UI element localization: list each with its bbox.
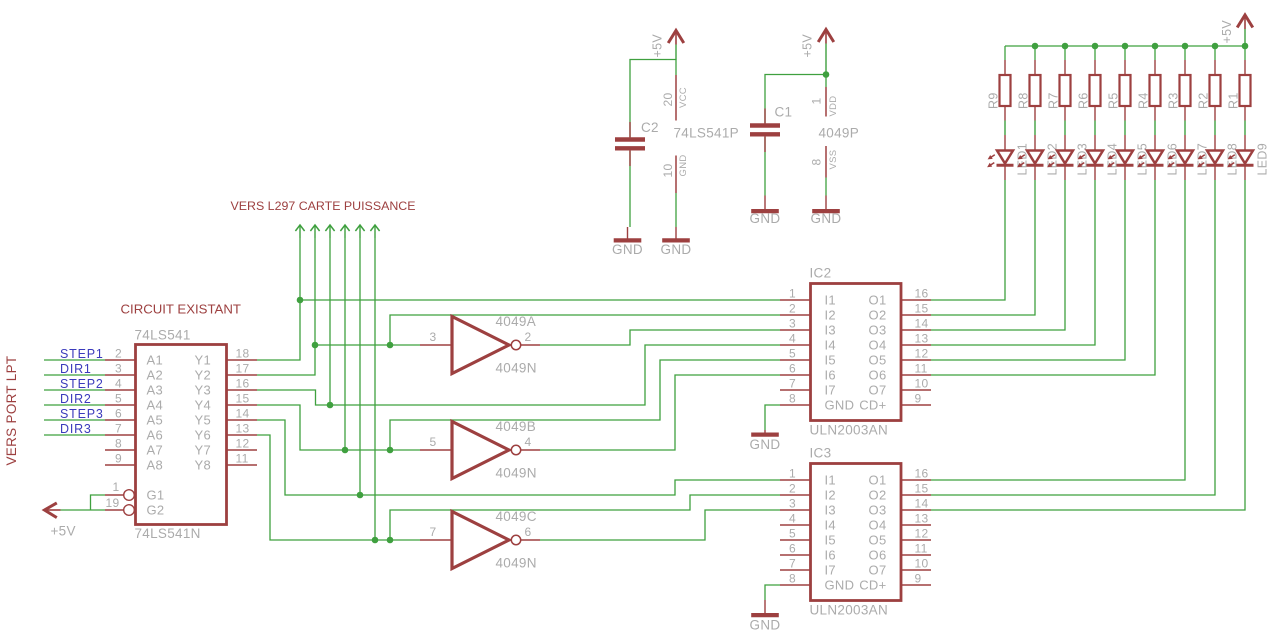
LED LED9 emission arrows bbox=[1229, 155, 1235, 159]
svg-text:CD+: CD+ bbox=[859, 578, 886, 593]
wire IC2 O1 to LED1 bbox=[931, 180, 1005, 300]
resistor R6 body bbox=[1090, 75, 1101, 106]
inverter 4049C input stub bbox=[420, 539, 451, 541]
junction at 315,345 bbox=[312, 342, 319, 349]
wire Y4 jog to IC2 I5 bbox=[390, 360, 780, 450]
svg-text:1: 1 bbox=[810, 98, 824, 105]
resistor R8 bottom pin bbox=[1034, 106, 1036, 121]
svg-text:I6: I6 bbox=[825, 548, 836, 563]
junction at 330,405 bbox=[327, 402, 334, 409]
svg-text:Y7: Y7 bbox=[194, 443, 211, 458]
wire resistor to LED4 bbox=[1094, 121, 1096, 136]
wire rail drop x1005 bbox=[1004, 46, 1006, 60]
74LS541 pin 19 bubble bbox=[124, 505, 135, 516]
svg-text:R7: R7 bbox=[1047, 92, 1061, 109]
svg-text:GND: GND bbox=[750, 211, 781, 226]
IC2 pin 1 stub bbox=[780, 299, 810, 301]
resistor R8 body bbox=[1030, 75, 1041, 106]
resistor R2 body bbox=[1210, 75, 1221, 106]
junction at 1035,46 bbox=[1032, 43, 1039, 50]
wire riser 6 bbox=[374, 238, 376, 540]
svg-text:R3: R3 bbox=[1167, 92, 1181, 109]
svg-text:Y1: Y1 bbox=[194, 353, 211, 368]
IC3 pin 1 stub bbox=[780, 479, 810, 481]
svg-text:+5V: +5V bbox=[1220, 20, 1234, 44]
IC2 pin 6 stub bbox=[780, 374, 810, 376]
svg-text:9: 9 bbox=[915, 392, 922, 406]
svg-text:9: 9 bbox=[915, 572, 922, 586]
wire resistor to LED8 bbox=[1214, 121, 1216, 136]
LED LED3 cathode pin bbox=[1064, 165, 1066, 180]
svg-text:O1: O1 bbox=[869, 473, 887, 488]
ground C2 bbox=[627, 227, 629, 239]
svg-text:10: 10 bbox=[915, 557, 929, 571]
resistor R3 top pin bbox=[1184, 60, 1186, 75]
wire Y6 jog to IC3 I2 bbox=[390, 495, 780, 540]
74LS541 pin 11 stub bbox=[227, 464, 257, 466]
svg-text:7: 7 bbox=[430, 525, 437, 539]
wire Y1 to IC2 I1 bbox=[300, 299, 780, 301]
IC2 pin 11 stub bbox=[901, 374, 931, 376]
resistor R5 body bbox=[1120, 75, 1131, 106]
svg-text:6: 6 bbox=[525, 525, 532, 539]
arrow to L297 wire 2 bbox=[310, 225, 319, 231]
svg-text:13: 13 bbox=[915, 332, 929, 346]
74LS541 pin 9 stub bbox=[105, 464, 135, 466]
74LS541 pin 16 stub bbox=[227, 389, 257, 391]
74LS541 pin 8 stub bbox=[105, 449, 135, 451]
74LS541P VCC pin 20 bbox=[675, 75, 677, 121]
resistor R5 top pin bbox=[1124, 60, 1126, 75]
LED LED9 cathode bar bbox=[1237, 164, 1254, 167]
svg-text:12: 12 bbox=[236, 437, 250, 451]
IC3 pin 16 stub bbox=[901, 479, 931, 481]
junction at 1095,46 bbox=[1092, 43, 1099, 50]
wire rail drop x1095 bbox=[1094, 46, 1096, 60]
junction at 1065,46 bbox=[1062, 43, 1069, 50]
LED LED5 body bbox=[1117, 151, 1133, 164]
LED LED8 anode pin bbox=[1214, 135, 1216, 151]
svg-text:+5V: +5V bbox=[51, 524, 76, 539]
capacitor C2 bottom pin bbox=[629, 151, 631, 167]
svg-text:ULN2003AN: ULN2003AN bbox=[810, 603, 889, 618]
IC3 pin 8 stub bbox=[780, 584, 810, 586]
resistor R4 bottom pin bbox=[1154, 106, 1156, 121]
svg-text:A8: A8 bbox=[147, 458, 164, 473]
svg-text:13: 13 bbox=[915, 512, 929, 526]
LED LED7 cathode bar bbox=[1177, 164, 1194, 167]
IC2 pin 7 stub bbox=[780, 389, 810, 391]
svg-text:C1: C1 bbox=[775, 105, 793, 120]
wire STEP3 net bbox=[44, 419, 105, 421]
inverter 4049A body bbox=[452, 317, 509, 374]
svg-text:+5V: +5V bbox=[801, 34, 815, 58]
inverter 4049B output stub bbox=[521, 449, 540, 451]
74LS541 pin 14 stub bbox=[227, 419, 257, 421]
svg-text:8: 8 bbox=[789, 572, 796, 586]
74LS541 pin 17 stub bbox=[227, 374, 257, 376]
LED LED4 cathode pin bbox=[1094, 165, 1096, 180]
wire rail drop x1065 bbox=[1064, 46, 1066, 60]
ground IC3 bbox=[764, 600, 766, 614]
74LS541 pin 5 stub bbox=[105, 404, 135, 406]
svg-text:14: 14 bbox=[236, 407, 250, 421]
LED LED4 body bbox=[1087, 151, 1103, 164]
wire 4049P VSS to GND bbox=[825, 178, 827, 196]
LED LED5 emission arrows bbox=[1109, 155, 1115, 159]
wire resistor to LED6 bbox=[1154, 121, 1156, 136]
wire rail drop x1125 bbox=[1124, 46, 1126, 60]
svg-text:16: 16 bbox=[915, 287, 929, 301]
IC3 pin 10 stub bbox=[901, 569, 931, 571]
svg-text:A1: A1 bbox=[147, 353, 164, 368]
junction at 360,495 bbox=[357, 492, 364, 499]
resistor R1 body bbox=[1240, 75, 1251, 106]
svg-text:5: 5 bbox=[430, 435, 437, 449]
svg-text:11: 11 bbox=[915, 542, 928, 556]
arrow to L297 wire 1 bbox=[295, 225, 304, 231]
LED LED5 cathode pin bbox=[1124, 165, 1126, 180]
4049P VSS pin 8 bbox=[825, 146, 827, 178]
junction at 1155,46 bbox=[1152, 43, 1159, 50]
svg-text:GND: GND bbox=[825, 398, 855, 413]
arrow to L297 wire 3 bbox=[325, 225, 334, 231]
arrow to L297 wire 6 bbox=[370, 225, 379, 231]
wire resistor to LED3 bbox=[1064, 121, 1066, 136]
svg-text:A7: A7 bbox=[147, 443, 164, 458]
svg-text:4: 4 bbox=[115, 377, 122, 391]
capacitor C1 bottom pin bbox=[764, 137, 766, 153]
svg-text:I6: I6 bbox=[825, 368, 836, 383]
svg-text:2: 2 bbox=[115, 347, 122, 361]
capacitor C2 plates bbox=[615, 137, 645, 141]
svg-text:3: 3 bbox=[789, 317, 796, 331]
IC3 pin 15 stub bbox=[901, 494, 931, 496]
LED LED2 anode pin bbox=[1034, 135, 1036, 151]
74LS541 pin 1 stub bbox=[105, 494, 124, 496]
svg-text:I5: I5 bbox=[825, 533, 836, 548]
wire C2 to VCC rail bbox=[630, 60, 676, 138]
wire Y6 to 4049C input bbox=[257, 435, 420, 540]
wire IC3 O3 to LED9 bbox=[931, 180, 1245, 510]
IC3 pin 14 stub bbox=[901, 509, 931, 511]
svg-text:16: 16 bbox=[236, 377, 250, 391]
wire C1 to VDD rail bbox=[765, 75, 826, 124]
svg-text:GND: GND bbox=[825, 578, 855, 593]
+5V supply arrow left bbox=[45, 503, 57, 518]
IC IC3 body bbox=[811, 464, 902, 601]
IC2 pin 8 stub bbox=[780, 404, 810, 406]
svg-text:17: 17 bbox=[236, 362, 250, 376]
svg-text:1: 1 bbox=[113, 480, 120, 494]
svg-text:VDD: VDD bbox=[828, 96, 839, 117]
svg-text:ULN2003AN: ULN2003AN bbox=[810, 423, 889, 438]
svg-text:4049A: 4049A bbox=[496, 314, 537, 329]
svg-text:12: 12 bbox=[915, 527, 929, 541]
svg-text:I3: I3 bbox=[825, 503, 836, 518]
wire DIR3 net bbox=[44, 434, 105, 436]
resistor R6 bottom pin bbox=[1094, 106, 1096, 121]
IC3 pin 9 stub bbox=[901, 584, 931, 586]
inverter 4049C output stub bbox=[521, 539, 540, 541]
wire riser 3 bbox=[329, 238, 331, 405]
arrow to L297 wire 5 bbox=[355, 225, 364, 231]
74LS541P GND pin 10 bbox=[675, 156, 677, 194]
svg-text:1: 1 bbox=[789, 287, 796, 301]
LED LED9 cathode pin bbox=[1244, 165, 1246, 180]
IC2 pin 5 stub bbox=[780, 359, 810, 361]
wire C1 to GND bbox=[764, 137, 766, 196]
wire IC3 pin8 to GND bbox=[765, 585, 780, 600]
svg-text:A3: A3 bbox=[147, 383, 164, 398]
wire resistor to LED2 bbox=[1034, 121, 1036, 136]
svg-text:GND: GND bbox=[750, 437, 781, 452]
svg-text:R2: R2 bbox=[1197, 92, 1211, 109]
IC3 pin 12 stub bbox=[901, 539, 931, 541]
svg-text:4: 4 bbox=[789, 512, 796, 526]
svg-text:6: 6 bbox=[789, 542, 796, 556]
ground 74LS541P bbox=[675, 227, 677, 239]
resistor R5 bottom pin bbox=[1124, 106, 1126, 121]
wire Y3 to riser bbox=[257, 345, 780, 405]
resistor R4 body bbox=[1150, 75, 1161, 106]
svg-text:I1: I1 bbox=[825, 293, 836, 308]
svg-text:R6: R6 bbox=[1077, 92, 1091, 109]
wire resistor to LED5 bbox=[1124, 121, 1126, 136]
svg-text:4049N: 4049N bbox=[496, 556, 537, 571]
wire Y5 to riser 5 bbox=[257, 420, 780, 495]
wire riser 5 bbox=[359, 238, 361, 495]
wire Y2 branch to 4049A input bbox=[315, 344, 420, 346]
wire 541P GND pin to GND bbox=[675, 193, 677, 227]
svg-text:Y6: Y6 bbox=[194, 428, 211, 443]
LED LED7 cathode pin bbox=[1184, 165, 1186, 180]
svg-text:Y2: Y2 bbox=[194, 368, 211, 383]
svg-text:15: 15 bbox=[915, 482, 929, 496]
IC2 pin 3 stub bbox=[780, 329, 810, 331]
svg-text:O4: O4 bbox=[869, 338, 887, 353]
svg-text:O7: O7 bbox=[869, 563, 887, 578]
svg-text:I1: I1 bbox=[825, 473, 836, 488]
svg-text:4049B: 4049B bbox=[496, 419, 537, 434]
svg-text:8: 8 bbox=[810, 159, 824, 166]
svg-text:7: 7 bbox=[789, 557, 796, 571]
svg-text:I5: I5 bbox=[825, 353, 836, 368]
svg-text:IC2: IC2 bbox=[810, 266, 832, 281]
inverter 4049C bubble bbox=[511, 535, 520, 544]
svg-text:+5V: +5V bbox=[651, 34, 665, 58]
IC2 pin 16 stub bbox=[901, 299, 931, 301]
wire IC2 O4 to LED4 bbox=[931, 180, 1095, 345]
IC3 pin 11 stub bbox=[901, 554, 931, 556]
resistor R4 top pin bbox=[1154, 60, 1156, 75]
svg-text:10: 10 bbox=[661, 164, 675, 178]
+5V supply arrow 4049P bbox=[818, 30, 834, 43]
svg-text:VERS L297 CARTE PUISSANCE: VERS L297 CARTE PUISSANCE bbox=[231, 199, 416, 213]
ground 4049P bbox=[825, 196, 827, 210]
junction at 390,540 bbox=[387, 537, 394, 544]
IC2 pin 9 stub bbox=[901, 404, 931, 406]
wire DIR2 net bbox=[44, 404, 105, 406]
wire 4049B out to IC2 I6 bbox=[540, 375, 780, 450]
svg-text:I2: I2 bbox=[825, 488, 836, 503]
LED LED6 emission arrows bbox=[1139, 155, 1145, 159]
LED LED1 anode pin bbox=[1004, 135, 1006, 151]
capacitor C1 plates bbox=[750, 123, 780, 127]
LED LED4 cathode bar bbox=[1087, 164, 1104, 167]
IC3 pin 2 stub bbox=[780, 494, 810, 496]
resistor R3 body bbox=[1180, 75, 1191, 106]
svg-text:4049N: 4049N bbox=[496, 466, 537, 481]
LED LED1 cathode pin bbox=[1004, 165, 1006, 180]
IC 74LS541 body bbox=[136, 345, 227, 525]
svg-text:I7: I7 bbox=[825, 563, 836, 578]
svg-text:4: 4 bbox=[789, 332, 796, 346]
LED LED8 cathode bar bbox=[1207, 164, 1224, 167]
svg-text:DIR3: DIR3 bbox=[60, 422, 92, 436]
svg-text:16: 16 bbox=[915, 467, 929, 481]
wire rail drop x1155 bbox=[1154, 46, 1156, 60]
svg-text:C2: C2 bbox=[641, 120, 659, 135]
svg-text:4049P: 4049P bbox=[819, 126, 860, 141]
svg-text:A2: A2 bbox=[147, 368, 164, 383]
svg-text:R1: R1 bbox=[1227, 92, 1241, 109]
svg-text:3: 3 bbox=[430, 330, 437, 344]
svg-text:GND: GND bbox=[750, 618, 781, 633]
svg-text:O4: O4 bbox=[869, 518, 887, 533]
wire +5V to G1 G2 bbox=[61, 509, 106, 511]
LED LED9 anode pin bbox=[1244, 135, 1246, 151]
svg-text:A4: A4 bbox=[147, 398, 164, 413]
LED LED3 anode pin bbox=[1064, 135, 1066, 151]
LED LED5 anode pin bbox=[1124, 135, 1126, 151]
resistor R9 body bbox=[1000, 75, 1011, 106]
svg-text:6: 6 bbox=[789, 362, 796, 376]
svg-text:A6: A6 bbox=[147, 428, 164, 443]
inverter 4049C body bbox=[452, 512, 509, 569]
wire Y4 to 4049B input bbox=[257, 405, 420, 450]
74LS541 pin 13 stub bbox=[227, 434, 257, 436]
resistor R7 bottom pin bbox=[1064, 106, 1066, 121]
svg-text:74LS541N: 74LS541N bbox=[135, 526, 201, 541]
svg-text:9: 9 bbox=[115, 452, 122, 466]
wire resistor to LED1 bbox=[1004, 121, 1006, 136]
wire rail drop x1035 bbox=[1034, 46, 1036, 60]
LED LED1 emission arrows bbox=[989, 155, 995, 159]
+5V supply arrow LED rail bbox=[1237, 15, 1253, 28]
IC2 pin 10 stub bbox=[901, 389, 931, 391]
svg-text:GND: GND bbox=[612, 242, 643, 257]
resistor R6 top pin bbox=[1094, 60, 1096, 75]
inverter 4049B input stub bbox=[420, 449, 451, 451]
svg-text:O3: O3 bbox=[869, 323, 887, 338]
wire riser 4 bbox=[344, 238, 346, 450]
ground IC2 bbox=[764, 430, 766, 433]
svg-text:4: 4 bbox=[525, 435, 532, 449]
wire IC3 O1 to LED7 bbox=[931, 180, 1185, 480]
74LS541 pin 2 stub bbox=[105, 359, 135, 361]
svg-text:R5: R5 bbox=[1107, 92, 1121, 109]
wire +5V LED rail bbox=[1005, 45, 1245, 47]
LED LED6 anode pin bbox=[1154, 135, 1156, 151]
wire resistor to LED9 bbox=[1244, 121, 1246, 136]
svg-text:STEP3: STEP3 bbox=[60, 407, 104, 421]
inverter 4049A input stub bbox=[420, 344, 451, 346]
svg-text:R8: R8 bbox=[1017, 92, 1031, 109]
+5V supply arrow 74LS541P bbox=[668, 31, 684, 44]
svg-text:12: 12 bbox=[915, 347, 929, 361]
junction at 300,300 bbox=[297, 297, 304, 304]
wire resistor to LED7 bbox=[1184, 121, 1186, 136]
svg-text:STEP2: STEP2 bbox=[60, 377, 104, 391]
svg-text:I2: I2 bbox=[825, 308, 836, 323]
inverter 4049A bubble bbox=[511, 340, 520, 349]
wire rail drop x1185 bbox=[1184, 46, 1186, 60]
svg-text:1: 1 bbox=[789, 467, 796, 481]
capacitor C2 top pin bbox=[629, 122, 631, 138]
svg-text:14: 14 bbox=[915, 317, 929, 331]
svg-text:3: 3 bbox=[115, 362, 122, 376]
svg-text:R9: R9 bbox=[987, 92, 1001, 109]
IC2 pin 12 stub bbox=[901, 359, 931, 361]
74LS541 pin 7 stub bbox=[105, 434, 135, 436]
LED LED2 cathode bar bbox=[1027, 164, 1044, 167]
inverter 4049B body bbox=[452, 422, 509, 479]
svg-text:G1: G1 bbox=[147, 488, 165, 503]
svg-text:5: 5 bbox=[115, 392, 122, 406]
IC2 pin 13 stub bbox=[901, 344, 931, 346]
LED LED9 body bbox=[1237, 151, 1253, 164]
IC3 pin 3 stub bbox=[780, 509, 810, 511]
inverter 4049B bubble bbox=[511, 445, 520, 454]
wire IC2 O3 to LED3 bbox=[931, 180, 1065, 330]
LED LED2 cathode pin bbox=[1034, 165, 1036, 180]
LED LED2 body bbox=[1027, 151, 1043, 164]
resistor R7 body bbox=[1060, 75, 1071, 106]
LED LED8 emission arrows bbox=[1199, 155, 1205, 159]
resistor R9 top pin bbox=[1004, 60, 1006, 75]
svg-text:7: 7 bbox=[115, 422, 122, 436]
svg-text:8: 8 bbox=[115, 437, 122, 451]
IC3 pin 6 stub bbox=[780, 554, 810, 556]
svg-text:CD+: CD+ bbox=[859, 398, 886, 413]
svg-text:11: 11 bbox=[236, 452, 249, 466]
wire Y1 vertical riser bbox=[257, 238, 300, 360]
junction at 1245,46 bbox=[1242, 43, 1249, 50]
junction at 1125,46 bbox=[1122, 43, 1129, 50]
74LS541 pin 18 stub bbox=[227, 359, 257, 361]
svg-text:O6: O6 bbox=[869, 548, 887, 563]
resistor R1 bottom pin bbox=[1244, 106, 1246, 121]
wire IC2 O2 to LED2 bbox=[931, 180, 1035, 315]
74LS541 pin 15 stub bbox=[227, 404, 257, 406]
svg-text:DIR2: DIR2 bbox=[60, 392, 92, 406]
svg-text:10: 10 bbox=[915, 377, 929, 391]
wire Y2 jog to IC2 I2 bbox=[390, 315, 780, 345]
IC2 pin 4 stub bbox=[780, 344, 810, 346]
LED LED1 body bbox=[997, 151, 1013, 164]
svg-text:13: 13 bbox=[236, 422, 250, 436]
svg-text:G2: G2 bbox=[147, 503, 165, 518]
svg-text:7: 7 bbox=[789, 377, 796, 391]
svg-text:GND: GND bbox=[661, 242, 692, 257]
svg-text:O6: O6 bbox=[869, 368, 887, 383]
svg-text:2: 2 bbox=[789, 482, 796, 496]
IC2 pin 14 stub bbox=[901, 329, 931, 331]
resistor R7 top pin bbox=[1064, 60, 1066, 75]
svg-text:19: 19 bbox=[106, 496, 120, 510]
junction at 390,450 bbox=[387, 447, 394, 454]
